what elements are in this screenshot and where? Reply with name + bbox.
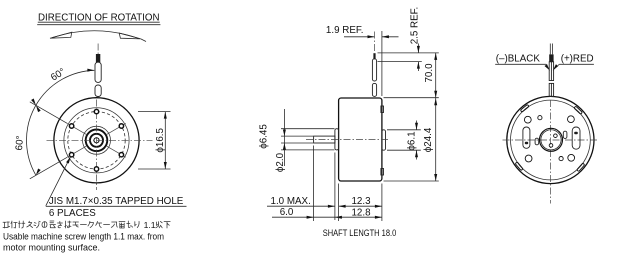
front view centerline horizontal xyxy=(47,139,153,141)
ext line body bottom right xyxy=(384,180,439,182)
rear view vent slot left xyxy=(523,127,530,148)
front view wire bare tip xyxy=(96,54,100,63)
ext line body right top xyxy=(381,31,383,96)
svg-text:60°: 60° xyxy=(14,135,26,151)
front view tapped hole at 210 deg xyxy=(69,153,73,157)
rear view vent slot right xyxy=(572,127,580,149)
ext lines phi6.45 xyxy=(281,128,335,130)
front view spoke 150 deg xyxy=(67,123,86,134)
svg-text:SHAFT LENGTH 18.0: SHAFT LENGTH 18.0 xyxy=(323,228,397,238)
front view hub circle thin xyxy=(83,126,111,154)
dim 70.0 and phi24.4 shared line xyxy=(435,53,437,181)
front view shaft circle xyxy=(94,138,99,143)
extension line 210 deg xyxy=(30,157,67,179)
side view wire centerline xyxy=(374,32,376,54)
rear wire pair lower xyxy=(549,83,553,96)
side view shaft xyxy=(314,136,335,143)
note japanese line xyxy=(3,221,139,228)
front view motor body outer circle xyxy=(54,98,139,183)
svg-text:ϕ16.5: ϕ16.5 xyxy=(155,127,166,152)
rear wire pair upper xyxy=(549,62,553,81)
svg-text:JIS M1.7×0.35 TAPPED HOLE: JIS M1.7×0.35 TAPPED HOLE xyxy=(49,196,184,207)
front view tapped hole at 270 deg xyxy=(94,167,98,171)
svg-text:1.9 REF.: 1.9 REF. xyxy=(326,25,364,36)
angular dimension arc 60 deg spans xyxy=(27,70,95,175)
side view case tab top xyxy=(381,106,384,113)
rear wire insulation tip block xyxy=(549,54,553,61)
ext lines bottom dims xyxy=(313,146,315,222)
rear view rivet hole 2 xyxy=(549,144,553,148)
front view tapped hole at 30 deg xyxy=(119,124,123,128)
svg-text:6.0: 6.0 xyxy=(280,207,294,218)
rear view centerline vertical xyxy=(549,100,551,204)
rear view small hole bottom xyxy=(559,157,563,161)
rear view side tab left xyxy=(535,138,539,145)
rear view small hole top xyxy=(538,116,542,120)
rear view centerline horizontal xyxy=(503,139,599,141)
rear view rim notch at 220 deg xyxy=(515,162,523,171)
svg-text:1.0 MAX.: 1.0 MAX. xyxy=(271,196,311,207)
front view spoke 330 deg xyxy=(107,146,126,157)
rear view rim notch at 47 deg xyxy=(574,106,583,114)
front view tapped hole at 150 deg xyxy=(69,124,73,128)
front view case inner circle xyxy=(64,108,129,173)
front view tapped hole at 90 deg xyxy=(94,109,98,113)
front view wire upper capsule xyxy=(95,62,101,82)
rear view terminal mark right xyxy=(574,132,578,134)
front view centerline vertical xyxy=(96,100,98,191)
rear view center boss inner xyxy=(541,130,561,150)
side view rear bearing boss xyxy=(382,130,386,150)
rear view terminal mark left xyxy=(525,142,528,144)
side view wire lower capsule xyxy=(372,83,376,96)
front view bushing circle xyxy=(90,134,103,147)
rotation direction curved arrow xyxy=(52,31,139,39)
svg-text:70.0: 70.0 xyxy=(424,63,435,83)
rear view hole circle upper-right xyxy=(568,116,575,123)
rear view outer circle xyxy=(507,96,594,183)
front view wire lower capsule xyxy=(95,85,101,97)
front view bolt circle (dashed) xyxy=(68,112,125,169)
front view spoke 210 deg xyxy=(67,146,86,157)
arc end arrow at 210 deg xyxy=(36,169,41,176)
svg-text:12.8: 12.8 xyxy=(351,207,371,218)
svg-text:ϕ6.1: ϕ6.1 xyxy=(406,131,417,150)
rear view rivet hole 1 xyxy=(554,134,558,138)
rear view side tab right xyxy=(563,131,567,138)
front view spoke 30 deg xyxy=(107,123,126,134)
side view front bushing xyxy=(335,129,339,150)
svg-text:(+)RED: (+)RED xyxy=(561,53,594,64)
rear view hole circle lower-right xyxy=(568,154,575,161)
svg-text:(–)BLACK: (–)BLACK xyxy=(496,53,541,64)
rear view rim notch at 318 deg xyxy=(577,163,585,172)
dim phi6.45 / phi2.0 shared line xyxy=(283,109,285,166)
front view bearing boss circle xyxy=(86,130,108,152)
leader line to tapped hole xyxy=(46,157,71,206)
ext line body top right xyxy=(384,97,439,99)
svg-text:ϕ24.4: ϕ24.4 xyxy=(423,127,434,152)
rear view center boss outer xyxy=(540,128,563,151)
rear view wires xyxy=(549,44,551,48)
dim phi6.1 xyxy=(387,129,421,131)
svg-text:motor mounting surface.: motor mounting surface. xyxy=(3,243,100,253)
svg-text:ϕ2.0: ϕ2.0 xyxy=(275,152,286,172)
title underline double xyxy=(38,21,160,23)
arc end arrow at wire xyxy=(87,69,94,72)
side view case tab bottom xyxy=(381,169,384,176)
side view wire upper capsule xyxy=(372,59,376,81)
side view shaft centerline xyxy=(306,139,390,141)
dim phi16.5 line xyxy=(164,112,166,169)
svg-text:1.1: 1.1 xyxy=(144,220,156,230)
ext lines phi2.0 xyxy=(281,135,313,137)
dim phi16.5 extension lines xyxy=(138,111,171,113)
svg-text:12.3: 12.3 xyxy=(351,196,371,207)
svg-text:Usable machine screw length 1.: Usable machine screw length 1.1 max. fro… xyxy=(3,231,164,241)
extension line 150 deg xyxy=(30,102,67,124)
svg-text:2.5 REF.: 2.5 REF. xyxy=(410,7,421,45)
svg-text:ϕ6.45: ϕ6.45 xyxy=(259,124,270,149)
svg-text:6 PLACES: 6 PLACES xyxy=(49,208,96,219)
rear view inner rim circle xyxy=(511,100,591,180)
side view wire bare tip xyxy=(373,53,375,59)
rear view hole circle lower-left xyxy=(525,155,532,162)
front view wire centerline xyxy=(97,44,99,55)
arc double arrows at 150 deg xyxy=(36,105,41,112)
side view motor body xyxy=(339,98,382,181)
rear view hole circle upper-left xyxy=(524,116,531,123)
front view tapped hole at 330 deg xyxy=(119,153,123,157)
rear view rim notch at 129 deg xyxy=(520,104,529,112)
